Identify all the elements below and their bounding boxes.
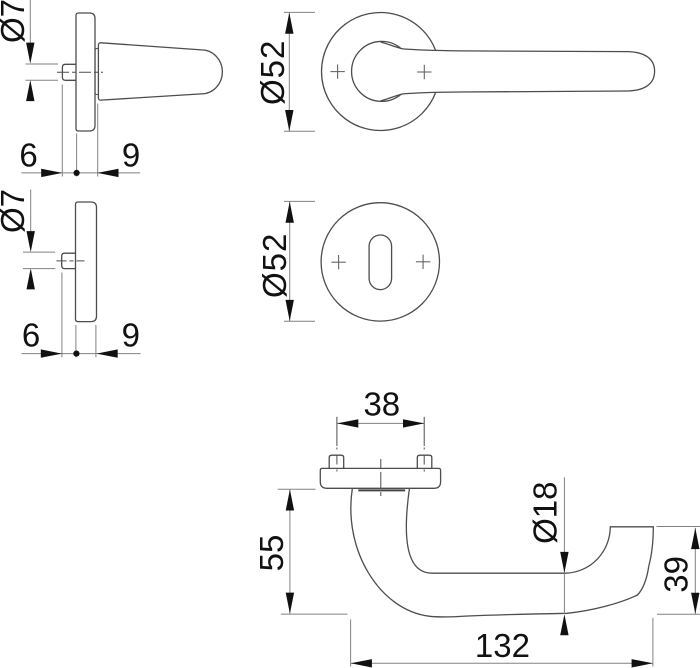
extension line 39 top (view E) [657,526,700,528]
extension line rose front (view A) [97,104,99,177]
handle neck cone (view A) [98,43,222,100]
spindle centerline (view E) [380,459,382,496]
neck flange circle (view C) [352,41,402,101]
svg-text:Ø52: Ø52 [254,40,291,105]
dim text 39 (view E) [657,556,694,593]
key rose circle (view D) [321,203,439,321]
svg-text:38: 38 [363,386,400,423]
arrow 132 left (view E) [351,659,372,667]
arrow 38 right (view E) [403,419,424,427]
dim text 132 (view E) [475,627,530,664]
extension line top (view D) [284,200,315,202]
extension line top (view C) [284,11,315,13]
arrow Ø52 top (view D) [286,202,294,223]
screw stud left (view E) [329,455,344,468]
dim text Ø7 (view B) [0,189,31,233]
svg-text:6: 6 [22,317,40,354]
extension line spindle face (view A) [61,85,63,177]
arrow 38 left (view E) [337,419,358,427]
dim line Ø7 vertical (view B) [30,190,32,241]
dim line 132 (view E) [351,662,653,664]
dim text 38 (view E) [363,386,400,423]
arrow Ø7 top (view A) [26,43,34,64]
arrow Ø7 bottom (view A) [26,80,34,101]
arrow Ø18 upper (view E) [560,552,568,573]
dot rose back (view A) [74,170,80,176]
dim line Ø7 vertical (view A) [29,0,31,52]
svg-text:6: 6 [19,137,37,174]
arrow Ø7 bottom (view B) [27,268,35,289]
dim text Ø52 (view C) [254,40,291,105]
centerline (view A) [57,71,103,73]
arrow Ø7 top (view B) [27,231,35,252]
rose circle (view C) [322,13,436,131]
dim line 55 (view E) [289,489,291,614]
svg-text:Ø52: Ø52 [256,233,293,298]
svg-text:Ø7: Ø7 [0,0,31,43]
arrow Ø52 bottom (view D) [286,300,294,321]
dim text Ø52 (view D) [256,233,293,298]
dim text 6 (view A) [19,137,37,174]
handle collar (view A) [95,49,99,95]
screw stud right (view E) [417,455,432,468]
extension line Ø7 lower (view B) [23,268,55,270]
rose plate side (view A) [76,13,95,131]
arrow 132 right (view E) [632,659,653,667]
dim line 6/9 (view B) [22,353,141,355]
lever grip outline (view C) [381,42,655,101]
extension line 55 bottom (view E) [281,613,348,615]
screw mark right (view C) [417,65,431,79]
extension line rose front (view B) [95,325,97,357]
extension line rose back (view B) [75,325,77,357]
dim text 9 (view A) [122,137,140,174]
cylinder stub (view B) [62,253,77,268]
dim line 38 (view E) [337,422,424,424]
stud centerline right (view E) [423,417,425,476]
arrow 39 bottom (view E) [691,593,699,614]
extension line 39 bottom (view E) [657,613,700,615]
handle outline (view E) [351,489,653,617]
extension line 132 left (view E) [350,620,352,667]
arrow 55 bottom (view E) [286,593,294,614]
extension line bottom (view C) [284,130,315,132]
arrow Ø18 lower (view E) [560,614,568,635]
key rose plate side (view B) [76,202,97,322]
arrow Ø52 top (view C) [285,13,293,34]
svg-text:9: 9 [122,317,140,354]
dim text Ø18 (view E) [527,482,564,544]
svg-text:Ø7: Ø7 [0,189,31,233]
centerline (view B) [57,260,85,262]
dim text 6 (view B) [22,317,40,354]
extension line Ø7 lower (view A) [26,79,59,81]
svg-text:Ø18: Ø18 [527,482,564,544]
arrow 9 (view A) [97,169,118,177]
extension line rose back (view A) [76,134,78,177]
neck collar contact line (view E) [358,489,405,491]
svg-text:55: 55 [253,535,290,572]
dim line 39 (view E) [694,528,696,614]
stud centerline left (view E) [336,417,338,476]
arrow Ø52 bottom (view C) [285,110,293,131]
dim line Ø18 (view E) [563,477,565,614]
screw mark left (view D) [331,255,345,269]
dim text 55 (view E) [253,535,290,572]
arrow 55 top (view E) [286,490,294,511]
screw mark left (view C) [330,64,344,78]
keyhole (view D) [369,235,392,290]
extension line bottom (view D) [284,320,315,322]
dim line Ø52 (view C) [288,12,290,131]
dim line Ø52 (view D) [289,201,291,321]
svg-text:9: 9 [122,137,140,174]
arrow 6 (view A) [41,169,62,177]
extension line Ø7 upper (view A) [26,63,59,65]
arrow 39 top (view E) [691,528,699,549]
rose plate side (view E) [320,468,440,488]
dim line 6/9 (view A) [21,172,140,174]
extension line Ø7 upper (view B) [23,251,55,253]
extension line stub face (view B) [61,273,63,358]
extension line 132 right (view E) [652,618,654,667]
arrow 6 (view B) [41,349,62,357]
arrow 9 (view B) [97,349,118,357]
dot rose back (view B) [73,351,79,357]
dim text 9 (view B) [122,317,140,354]
svg-text:132: 132 [475,627,530,664]
spindle stub (view A) [62,64,77,80]
dim text Ø7 (view A) [0,0,31,43]
extension line 55 top (view E) [278,488,316,490]
screw mark right (view D) [416,255,430,269]
svg-text:39: 39 [657,556,694,593]
